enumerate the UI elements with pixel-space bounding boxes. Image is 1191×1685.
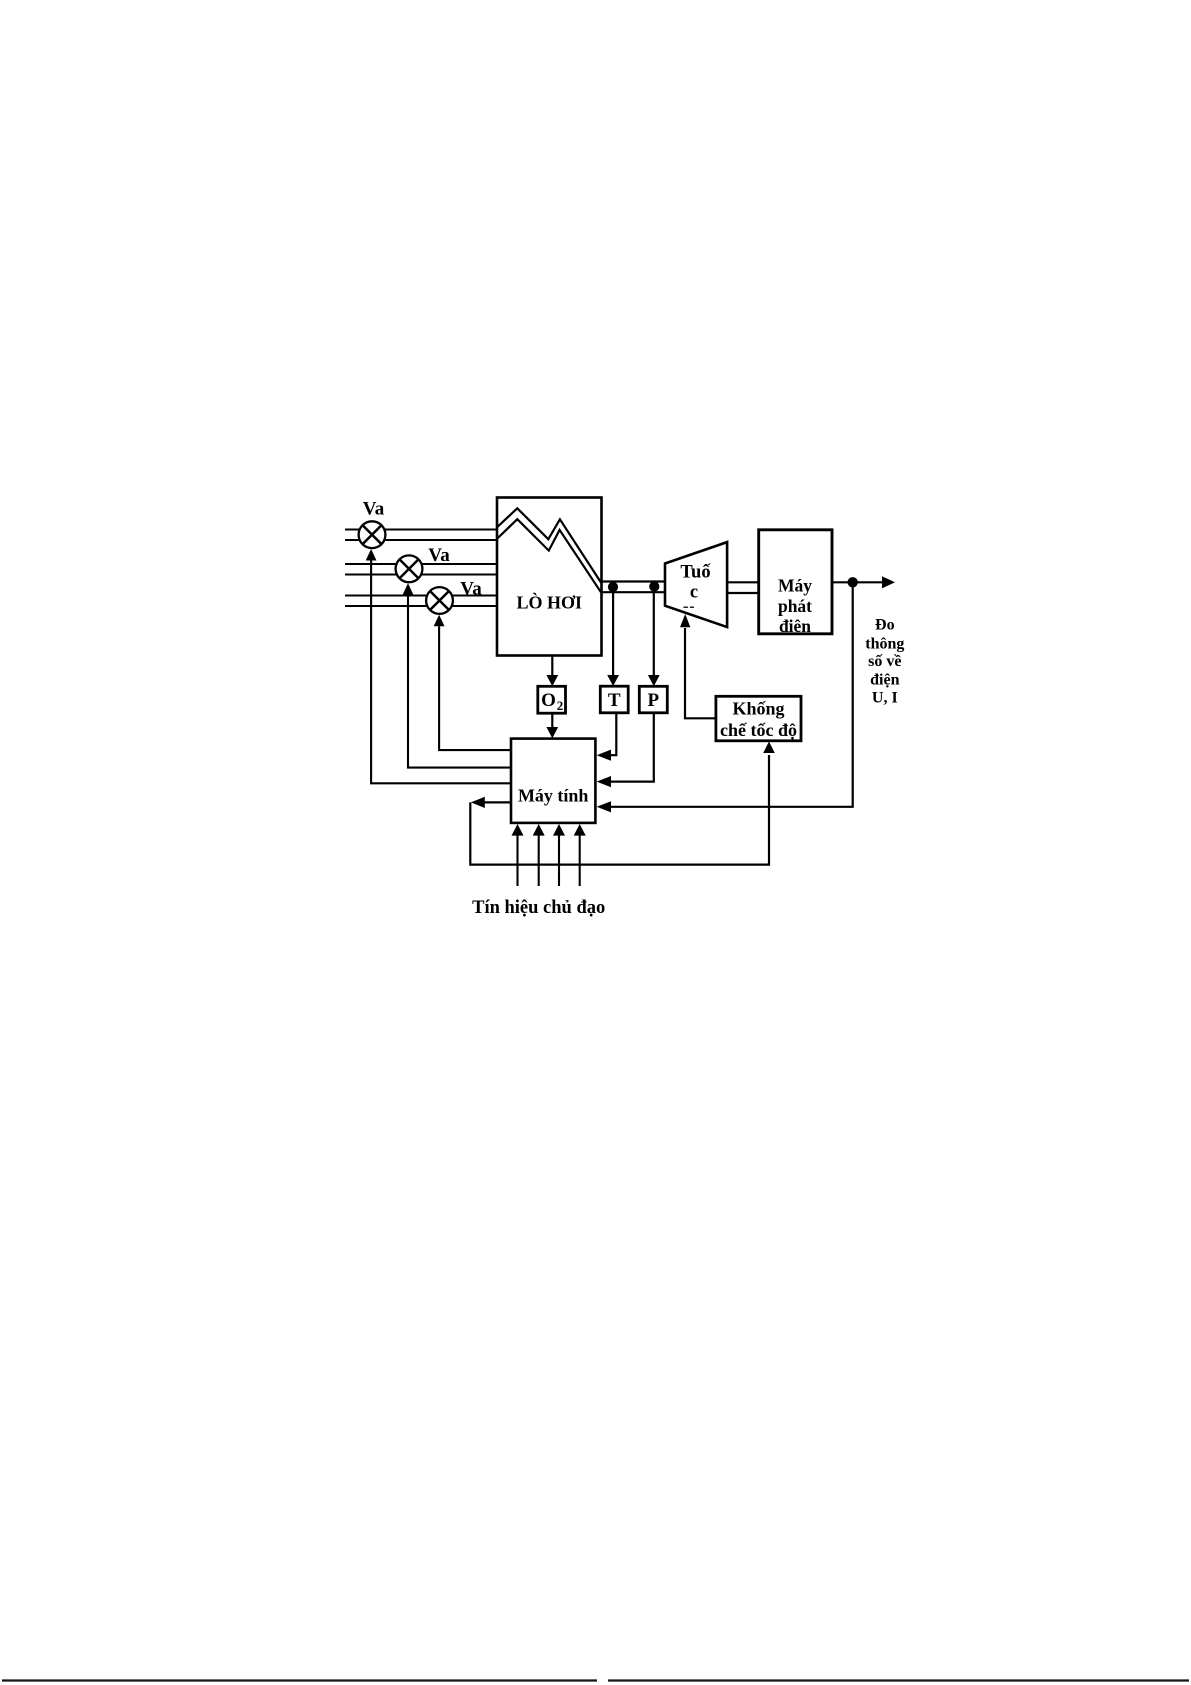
wire junction to P sensor — [648, 589, 660, 686]
turbine Tuoc bin trapezoid — [665, 542, 727, 627]
svg-text:Đo: Đo — [875, 617, 895, 634]
svg-text:số về: số về — [868, 653, 901, 670]
svg-text:Tín hiệu chủ đạo: Tín hiệu chủ đạo — [472, 898, 605, 918]
wire generator feedback to computer — [597, 584, 853, 812]
valve Va1 — [359, 521, 386, 548]
sensor T box — [600, 686, 628, 713]
svg-text:chế tốc độ: chế tốc độ — [720, 720, 797, 740]
svg-text:điên: điên — [779, 616, 811, 636]
wire master signal 1 — [512, 824, 524, 886]
wire P to computer — [597, 713, 654, 787]
boiler LO HOI box — [497, 498, 602, 656]
wire master signal 4 — [574, 824, 586, 886]
wire computer output left arrow — [471, 797, 511, 808]
page bottom rule — [2, 1679, 1189, 1681]
valve Va3 — [426, 587, 453, 614]
wire master signal 3 — [553, 824, 565, 886]
svg-text:Va: Va — [363, 499, 385, 520]
svg-text:2: 2 — [557, 698, 564, 713]
computer May tinh box — [511, 739, 595, 823]
wire computer to valve1 — [366, 549, 511, 783]
wire computer to valve2 — [403, 583, 511, 767]
wire pipe pair 1 (fuel line into boiler) — [345, 530, 497, 541]
node junction P — [649, 581, 659, 591]
wire steam pipe top — [602, 580, 666, 582]
wire boiler to O2 sensor — [546, 656, 558, 686]
node junction generator output — [848, 577, 858, 587]
svg-text:Tuố: Tuố — [680, 563, 711, 583]
svg-text:phát: phát — [778, 596, 812, 616]
wire speed controller to turbine — [680, 614, 716, 718]
turbine clipped letter marks — [684, 606, 695, 608]
boiler zigzag steam path outer line — [497, 508, 601, 582]
svg-text:Máy tính: Máy tính — [518, 786, 589, 806]
svg-text:Khống: Khống — [732, 699, 784, 719]
svg-text:Va: Va — [460, 579, 482, 600]
wire generator output — [832, 576, 895, 588]
svg-text:O: O — [541, 690, 556, 711]
wire pipe pair 2 — [345, 564, 497, 575]
wire O2 to computer — [546, 713, 558, 738]
svg-text:LÒ HƠI: LÒ HƠI — [516, 592, 582, 613]
sensor O2 box — [538, 686, 566, 713]
wire pipe pair 3 — [345, 596, 497, 607]
svg-text:T: T — [608, 690, 621, 711]
svg-text:P: P — [647, 690, 659, 711]
sensor P box — [639, 686, 667, 713]
generator May phat dien box — [759, 530, 832, 634]
wire steam pipe bottom — [602, 591, 666, 593]
svg-text:c: c — [690, 583, 698, 603]
svg-text:điện: điện — [870, 672, 899, 689]
svg-text:Va: Va — [428, 545, 450, 566]
wire master signal 2 — [533, 824, 545, 886]
speed controller Khong che toc do box — [716, 696, 801, 741]
label Do thong so ve dien U,I — [865, 617, 904, 707]
wire shaft top — [727, 581, 759, 583]
wire shaft bottom — [727, 592, 759, 594]
boiler zigzag steam path inner line — [497, 519, 601, 592]
node junction T — [608, 582, 618, 592]
valve Va2 — [396, 555, 423, 582]
wire junction to T sensor — [607, 589, 619, 686]
svg-text:thông: thông — [865, 635, 904, 652]
svg-text:Máy: Máy — [778, 576, 812, 596]
svg-text:U, I: U, I — [872, 689, 898, 706]
wire T to computer — [597, 713, 617, 761]
wire computer to valve3 — [434, 615, 511, 750]
wire computer to speed controller — [470, 742, 775, 865]
